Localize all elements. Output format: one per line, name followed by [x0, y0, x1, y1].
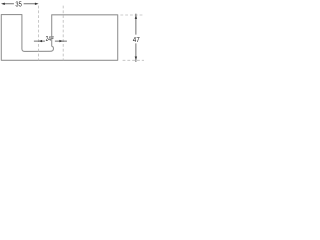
dimension 35 line [4, 3, 14, 5]
dimension 35 right arrow [35, 3, 39, 5]
extension line bottom right [123, 59, 144, 61]
dimension 24 right arrow [59, 40, 63, 42]
dimension 47 bottom arrow [135, 57, 137, 61]
hidden edge / extension line right [62, 6, 64, 61]
hidden edge / extension line left [38, 6, 40, 61]
dimension 47 top arrow [135, 15, 137, 19]
svg-text:35: 35 [15, 0, 21, 8]
svg-text:24: 24 [46, 36, 52, 43]
dimension 24 line with outside tails [34, 40, 45, 42]
dimension 24 left arrow [39, 40, 43, 42]
svg-text:2: 2 [51, 35, 54, 40]
dimension 35 left arrow [1, 3, 5, 5]
extension line top right [120, 14, 144, 16]
svg-text:47: 47 [133, 36, 140, 44]
dimension 47 line [135, 14, 137, 35]
part outline profile [1, 15, 117, 61]
